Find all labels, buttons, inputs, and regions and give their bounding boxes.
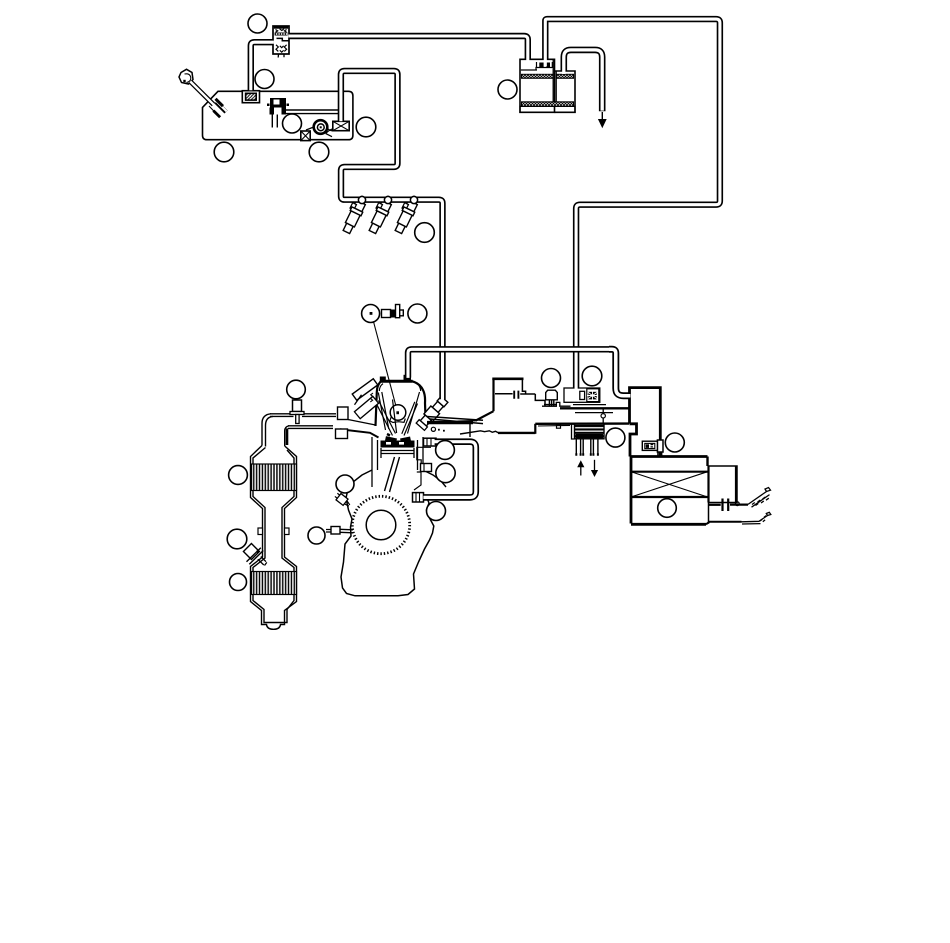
hose: canister to top-right loop and purge valve [545, 19, 720, 391]
canister vent arrow [598, 112, 607, 128]
engine: block outline [341, 470, 446, 596]
air duct mouth [458, 411, 536, 434]
exhaust downpipe bend [262, 414, 289, 447]
fuel tank [203, 91, 353, 139]
balloon: fuel tank [356, 117, 376, 137]
balloon: tank shield left [214, 142, 234, 162]
balloon: loop lower [436, 463, 455, 482]
balloon: loop upper [436, 441, 455, 460]
charcoal canister [520, 59, 575, 112]
balloon: muffler [658, 499, 677, 518]
resonator / right assembly outline [630, 388, 661, 457]
hose: intake vacuum horizontal [408, 349, 612, 378]
balloon: converter 1 [229, 466, 248, 485]
balloon: MAP sensor [542, 369, 561, 388]
engine: breather node with dots [431, 427, 445, 431]
hose: fuel feed from tank to rail, down to engine [341, 71, 443, 400]
oxygen sensor (front, vertical) [290, 400, 304, 424]
engine: combustion chamber circle [390, 405, 406, 423]
purge control solenoid valve [564, 388, 600, 402]
balloon: tank band right [309, 142, 329, 162]
intake manifold lower edge [535, 424, 629, 429]
balloon: EGR [606, 428, 625, 447]
fuel filler neck [179, 69, 214, 105]
tank inlet hatched box (fuel cut valve) [242, 91, 259, 103]
EGR valve (hatched) [572, 424, 605, 439]
fuel pump (spiral) [306, 120, 334, 134]
engine: carburetor dome [376, 375, 426, 427]
engine: valve stems [378, 392, 419, 436]
fuel pump / sender unit in tank [267, 98, 289, 128]
hose: engine vacuum loop [423, 442, 475, 498]
balloon: spark plug (with dot) [362, 305, 380, 323]
engine: valve seats [386, 434, 411, 441]
fuel injector 1 [340, 196, 366, 234]
flywheel ring gear [352, 496, 409, 553]
muffler tail chamber box [708, 466, 740, 523]
EGR flow arrows [577, 460, 598, 477]
oxygen sensor (rear, angled) [243, 544, 266, 566]
engine: intake runner to plenum [427, 417, 483, 424]
fuel filter (X box) [326, 121, 349, 136]
spark plug balloon dot [370, 312, 373, 315]
engine right side fittings [413, 438, 437, 502]
hose: check valve to fuel tank [251, 42, 274, 90]
engine: cylinder + piston [372, 437, 423, 492]
filler neck lower / anti-spill flap [209, 98, 227, 119]
exhaust joint (capacitor symbol) [709, 499, 748, 512]
balloon: two-way valve [248, 14, 267, 33]
hose: drop to resonator inlet [609, 349, 630, 395]
EGR ports/legs [575, 439, 599, 455]
balloon: purge valve [582, 366, 602, 386]
muffler inlet stub [658, 443, 662, 456]
injector connector rings (over rail) [358, 196, 417, 203]
exhaust runner B (lower) [288, 426, 333, 429]
balloon: plug wire [408, 304, 427, 323]
exhaust runner A (upper) [270, 414, 336, 417]
tailpipe 2 (lower, hatched cut) [706, 512, 771, 524]
hose: check valve to canister port 1 [288, 36, 528, 63]
catalytic converter 1 [251, 446, 297, 630]
balloon: starter [308, 527, 325, 544]
balloon: block left [336, 475, 354, 493]
fuel injector 3 [392, 196, 418, 234]
air intake duct with resonator (capacitor symbol) [492, 379, 545, 411]
in-tank fuel line [286, 109, 341, 114]
callout balloons [214, 14, 684, 591]
engine: head right thick bar [427, 421, 473, 424]
engine: head edge lines left [340, 395, 379, 438]
balloon: flywheel right [427, 502, 446, 521]
balloon: O2 front [287, 380, 306, 399]
converter 1 catalyst hatch [252, 464, 297, 491]
muffler body [630, 457, 708, 525]
converter 2 catalyst hatch [252, 572, 297, 595]
engine: pushrod lines [376, 401, 396, 436]
balloon: O2 rear [227, 529, 247, 549]
knock sensor [334, 492, 352, 509]
engine: cold start injector (tilted, right) [416, 396, 449, 431]
tailpipe 1 (upper, hatched cut) [748, 488, 771, 508]
exhaust port B [336, 429, 348, 439]
balloon: converter 2 [230, 574, 247, 591]
hose: canister vent pipe [564, 50, 602, 111]
fuel strainer (small X box) [301, 131, 310, 141]
balloon: injectors [415, 223, 435, 243]
engine: rocker box (tilted, left) [352, 379, 378, 419]
spark plug with leader line [372, 305, 403, 411]
balloon: canister [498, 80, 517, 99]
intake manifold gasket line [542, 402, 629, 412]
pipe tabs between converters [258, 528, 289, 535]
MAP sensor [546, 390, 558, 406]
fuel injector 2 [366, 196, 392, 234]
exhaust port A [338, 407, 349, 420]
check valve (two-way valve) [273, 26, 289, 58]
FR sensor box [642, 440, 663, 452]
starter bolt [326, 527, 353, 535]
balloon: sender [283, 114, 302, 133]
flywheel hub [366, 510, 396, 540]
balloon: resonator [665, 433, 684, 452]
vacuum nipple node [601, 410, 605, 424]
balloon: tank hose [255, 70, 274, 89]
